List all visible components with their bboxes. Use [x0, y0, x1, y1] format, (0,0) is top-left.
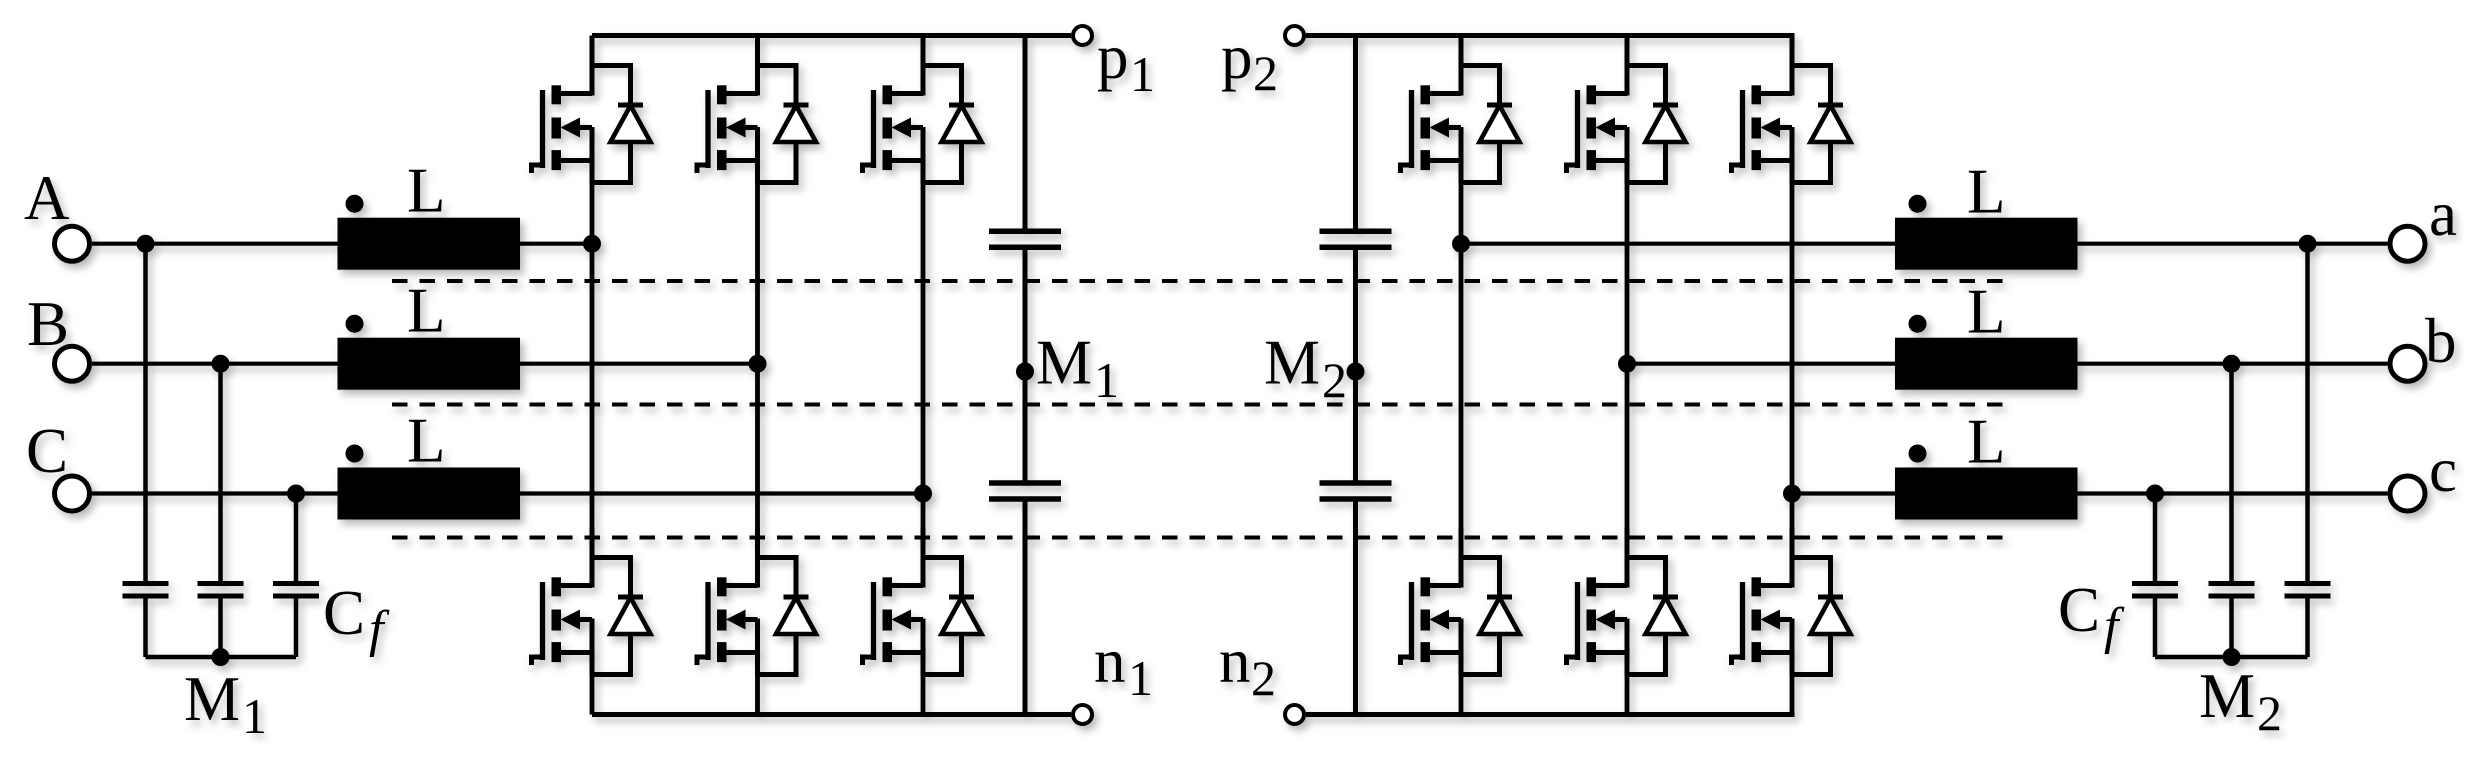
svg-text:L: L	[1967, 277, 2005, 347]
svg-text:n: n	[1219, 626, 1251, 696]
svg-text:p: p	[1221, 22, 1253, 92]
svg-text:a: a	[2429, 179, 2457, 249]
svg-text:2: 2	[1322, 352, 1347, 408]
svg-text:1: 1	[242, 688, 267, 744]
svg-text:2: 2	[2257, 685, 2282, 741]
svg-text:1: 1	[1130, 46, 1155, 102]
svg-text:L: L	[407, 276, 445, 346]
svg-text:C: C	[2058, 575, 2100, 645]
svg-text:1: 1	[1128, 650, 1153, 706]
svg-text:2: 2	[1251, 650, 1276, 706]
svg-text:L: L	[1967, 407, 2005, 477]
svg-text:L: L	[407, 156, 445, 226]
svg-text:L: L	[1967, 157, 2005, 227]
svg-text:C: C	[323, 578, 365, 648]
svg-text:2: 2	[1253, 45, 1278, 101]
svg-text:1: 1	[1094, 352, 1119, 408]
svg-text:A: A	[24, 163, 70, 233]
svg-text:M: M	[1264, 328, 1320, 398]
svg-text:b: b	[2425, 306, 2457, 376]
svg-text:p: p	[1097, 22, 1129, 92]
svg-text:M: M	[1036, 328, 1092, 398]
svg-text:M: M	[2199, 661, 2255, 731]
svg-text:n: n	[1094, 626, 1126, 696]
svg-text:B: B	[27, 289, 69, 359]
svg-text:L: L	[407, 406, 445, 476]
svg-text:c: c	[2429, 435, 2457, 505]
svg-text:C: C	[26, 416, 68, 486]
svg-text:M: M	[184, 664, 240, 734]
